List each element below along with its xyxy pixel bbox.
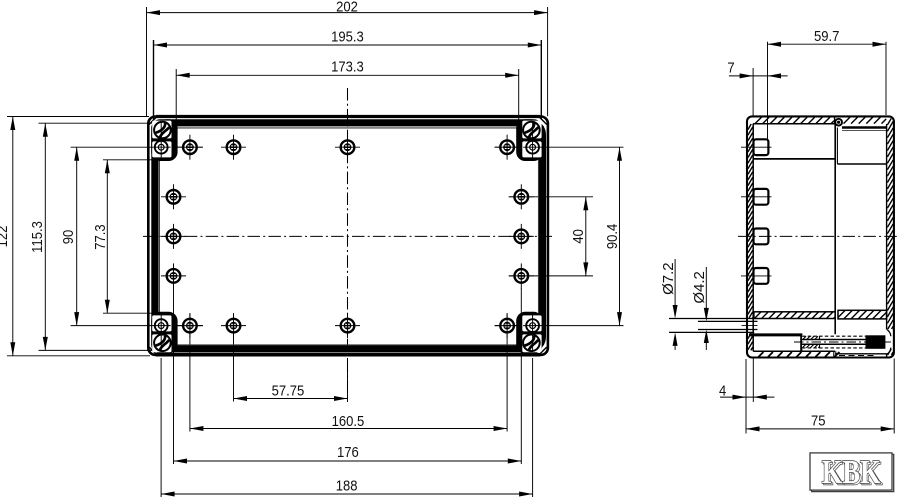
top flange inner line [753,123,834,125]
side view outline [747,116,894,357]
svg-text:59.7: 59.7 [814,27,840,44]
corner boss bottom-right [516,312,542,354]
dimension 90.4 [619,147,621,325]
boss centre tick y=275.9 [741,275,772,277]
wall boss y=196.8 [754,189,769,205]
dimension 115.3 [44,123,46,350]
svg-text:122: 122 [0,225,10,247]
svg-text:77.3: 77.3 [91,224,108,250]
mounting hole top row x=189.9 [183,140,197,154]
screw hole centre tick [742,325,758,327]
dimension 59.7 [768,43,887,45]
box/lid boundary line 2 [836,128,838,165]
screw hole inner lines [698,320,758,322]
dimension 176 extension lines [173,288,175,464]
pillar thick edge [749,333,801,336]
dimension 57.75 [234,398,348,400]
cover corner hatch bottom-right [540,347,547,354]
screw bushing edge [819,336,821,339]
svg-text:188: 188 [336,476,358,493]
mounting hole bottom row x=507.1 [500,319,514,333]
dimension 195.3 [154,44,542,46]
vertical centre line [347,88,349,402]
wall boss y=275.9 [754,268,769,284]
dimension 173.3 [176,74,519,76]
corner boss top-left [151,119,177,161]
lid screw head [866,335,886,349]
right wall hatch [887,119,891,125]
svg-text:57.75: 57.75 [272,381,305,398]
cover outline (202x122) [148,117,548,355]
corner boss top-right [516,119,542,161]
base outline (195.3x115.3) [155,123,543,349]
left wall inner line [752,124,754,352]
right wall inner line [886,124,888,330]
bottom shelf (box side) [754,312,835,319]
cover corner hatch top-right [540,118,547,125]
lid boss edge line [837,163,886,165]
screw head recess [886,331,891,354]
diameter 4.2 leader [705,267,707,312]
row centre line top-left [71,146,203,148]
mounting hole right column y=236.4 [515,230,529,244]
svg-text:202: 202 [336,0,358,15]
bottom lid line [835,353,888,355]
dimension 160.5 [190,428,507,430]
wall boss y=147.2 [754,139,769,155]
dimension 77.3 [106,160,108,313]
svg-text:195.3: 195.3 [331,28,364,45]
mounting hole left column y=275.9 [167,269,181,283]
dimension 7 [729,75,788,77]
row centre line top-right [495,146,624,148]
svg-text:40: 40 [569,229,586,244]
dimension 7 extension line [752,68,754,116]
svg-text:75: 75 [811,412,826,429]
dimension 4 extension lines [745,359,747,434]
dimension 40 [585,197,587,276]
dimension 77.3 extension lines [103,159,152,161]
cover corner hatch top-left [149,118,156,125]
mounting hole left column y=196.8 [167,190,181,204]
lid screw body background [802,335,866,349]
svg-text:7: 7 [727,59,734,76]
KBK logo frame [812,454,894,491]
svg-text:176: 176 [337,443,359,460]
dimension 188 extension lines [160,358,162,497]
lid top hatch [844,117,850,123]
screw bushing hatch [803,336,806,339]
svg-text:Ø4.2: Ø4.2 [691,271,708,304]
dimension 202 [147,12,548,14]
wall boss y=236.4 [754,229,769,245]
corner boss bottom-left [151,312,177,354]
horizontal centre line [143,235,552,237]
dimension 122 extension lines [7,116,149,118]
column hole centre line lower-right [509,275,593,277]
dimension 122 [12,117,14,356]
dimension 176 [174,460,522,462]
dimension 90 [76,147,78,325]
row centre line bottom-left [71,325,203,327]
column hole centre line upper-right [509,196,593,198]
bottom lid dashed line [839,355,876,357]
top flange hatch [755,117,761,123]
box/lid boundary line [834,124,836,334]
mounting hole left column y=236.4 [167,230,181,244]
dimension 160.5 extension lines [189,314,191,432]
bottom joint lines [833,351,835,357]
lid joint vertical line [834,116,836,124]
mounting hole top row x=347.5 [341,140,355,154]
screw hole outer lines [669,318,754,320]
svg-text:4: 4 [719,381,726,398]
svg-text:90: 90 [59,230,76,245]
dimension 195.3 extension lines [153,40,155,120]
row centre line bottom-right [495,325,624,327]
dimension 59.7 extension lines [767,42,769,139]
dimension 202 extension lines [146,7,148,116]
svg-text:173.3: 173.3 [331,58,364,75]
seal circle [835,119,842,126]
lid screw thread bottom [802,347,866,349]
dimension 75 extension line right [893,359,895,434]
bottom wall top line [753,350,835,352]
bottom wall hatch [759,352,764,357]
lid screw centre line [794,341,891,343]
mounting hole right column y=196.8 [515,190,529,204]
side view centre line [738,235,898,237]
dimension 75 [746,428,894,430]
boss centre tick y=147.2 [741,146,772,148]
dimension 57.75 extension lines [233,314,235,402]
dimension 173.3 extension lines [175,69,177,120]
dimension 4 [720,396,774,398]
dimension 188 [161,493,532,495]
svg-text:160.5: 160.5 [332,412,365,429]
boss centre tick y=196.8 [741,196,772,198]
dimension 115.3 extension lines [39,122,153,124]
mounting hole right column y=275.9 [515,269,529,283]
lid inner top line [842,126,887,129]
svg-text:Ø7.2: Ø7.2 [660,262,677,295]
svg-text:KBK: KBK [822,453,881,491]
bottom shelf (lid side) [838,310,887,319]
svg-text:115.3: 115.3 [28,221,45,253]
cover corner hatch bottom-left [149,347,156,354]
mounting hole bottom row x=189.9 [183,319,197,333]
left wall hatch [748,124,751,130]
mounting hole bottom row x=233.5 [227,319,241,333]
lid screw shaft top [802,339,866,341]
mounting hole top row x=233.5 [227,140,241,154]
lid inner top line 2 [842,130,887,132]
lid screw thread top [802,335,866,337]
inner wall line [159,128,538,345]
svg-text:90.4: 90.4 [603,224,620,250]
mounting hole top row x=507.1 [500,140,514,154]
lid screw shaft bottom [802,343,866,345]
boss bottom edge line [753,158,835,160]
mounting hole bottom row x=347.5 [341,319,355,333]
diameter 7.2 leader [674,259,676,310]
pillar vertical edge [800,333,802,352]
